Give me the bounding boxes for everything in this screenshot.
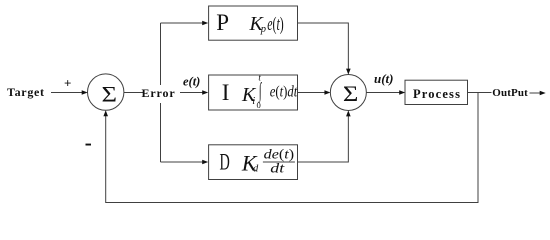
arrowhead into S2 bottom: [346, 110, 351, 116]
wire Process to output: [468, 92, 492, 94]
block P: [209, 6, 298, 40]
svg-text:Process: Process: [413, 87, 461, 101]
svg-text:OutPut: OutPut: [492, 87, 528, 99]
arrowhead output: [540, 91, 546, 96]
summing junction S2: [330, 75, 366, 111]
svg-text:Σ: Σ: [102, 81, 118, 106]
block I: [209, 75, 298, 110]
block D: [209, 145, 298, 180]
block Process: [405, 80, 468, 104]
svg-text:p: p: [260, 24, 266, 35]
svg-text:D: D: [220, 150, 230, 175]
label Error: [142, 85, 179, 103]
svg-text:e(t): e(t): [183, 74, 200, 88]
wire e(t) arrow to I: [180, 92, 204, 94]
wire S1 to Error: [124, 92, 144, 94]
svg-text:de(t): de(t): [264, 146, 294, 161]
arrowhead into S1: [82, 90, 88, 95]
wire feedback loop: [106, 93, 478, 203]
arrowhead into I: [202, 90, 208, 95]
svg-text:i: i: [252, 96, 255, 107]
wire P to S2: [298, 23, 349, 70]
minus sign: [86, 144, 92, 146]
wire S2 to Process: [366, 92, 400, 94]
svg-text:Error: Error: [142, 86, 176, 100]
wire I to S2: [298, 92, 326, 94]
arrowhead feedback into S1 bottom: [103, 110, 108, 116]
wire branch to D: [161, 161, 204, 163]
arrowhead into S2 left: [324, 90, 330, 95]
arrowhead into Process: [399, 90, 405, 95]
wire branch vertical: [160, 23, 162, 162]
wire Target input: [51, 92, 83, 94]
summing junction S1: [88, 74, 124, 110]
arrowhead into P: [202, 21, 208, 26]
svg-text:Target: Target: [7, 85, 45, 99]
svg-text:e(t)dt: e(t)dt: [270, 84, 298, 101]
arrowhead into S2 top: [346, 69, 351, 75]
svg-text:dt: dt: [270, 160, 286, 175]
wire branch to P: [161, 22, 204, 24]
svg-text:e(t): e(t): [267, 14, 283, 35]
svg-text:d: d: [253, 163, 259, 174]
arrowhead into D: [202, 160, 208, 165]
svg-text:0: 0: [257, 101, 261, 110]
svg-text:Σ: Σ: [343, 81, 359, 106]
fraction bar: [263, 161, 295, 163]
wire D to S2: [298, 115, 349, 162]
svg-text:P: P: [216, 10, 229, 35]
svg-text:+: +: [64, 76, 71, 91]
svg-text:I: I: [222, 80, 230, 105]
wire output arrow: [530, 92, 542, 94]
svg-text:u(t): u(t): [374, 71, 394, 86]
